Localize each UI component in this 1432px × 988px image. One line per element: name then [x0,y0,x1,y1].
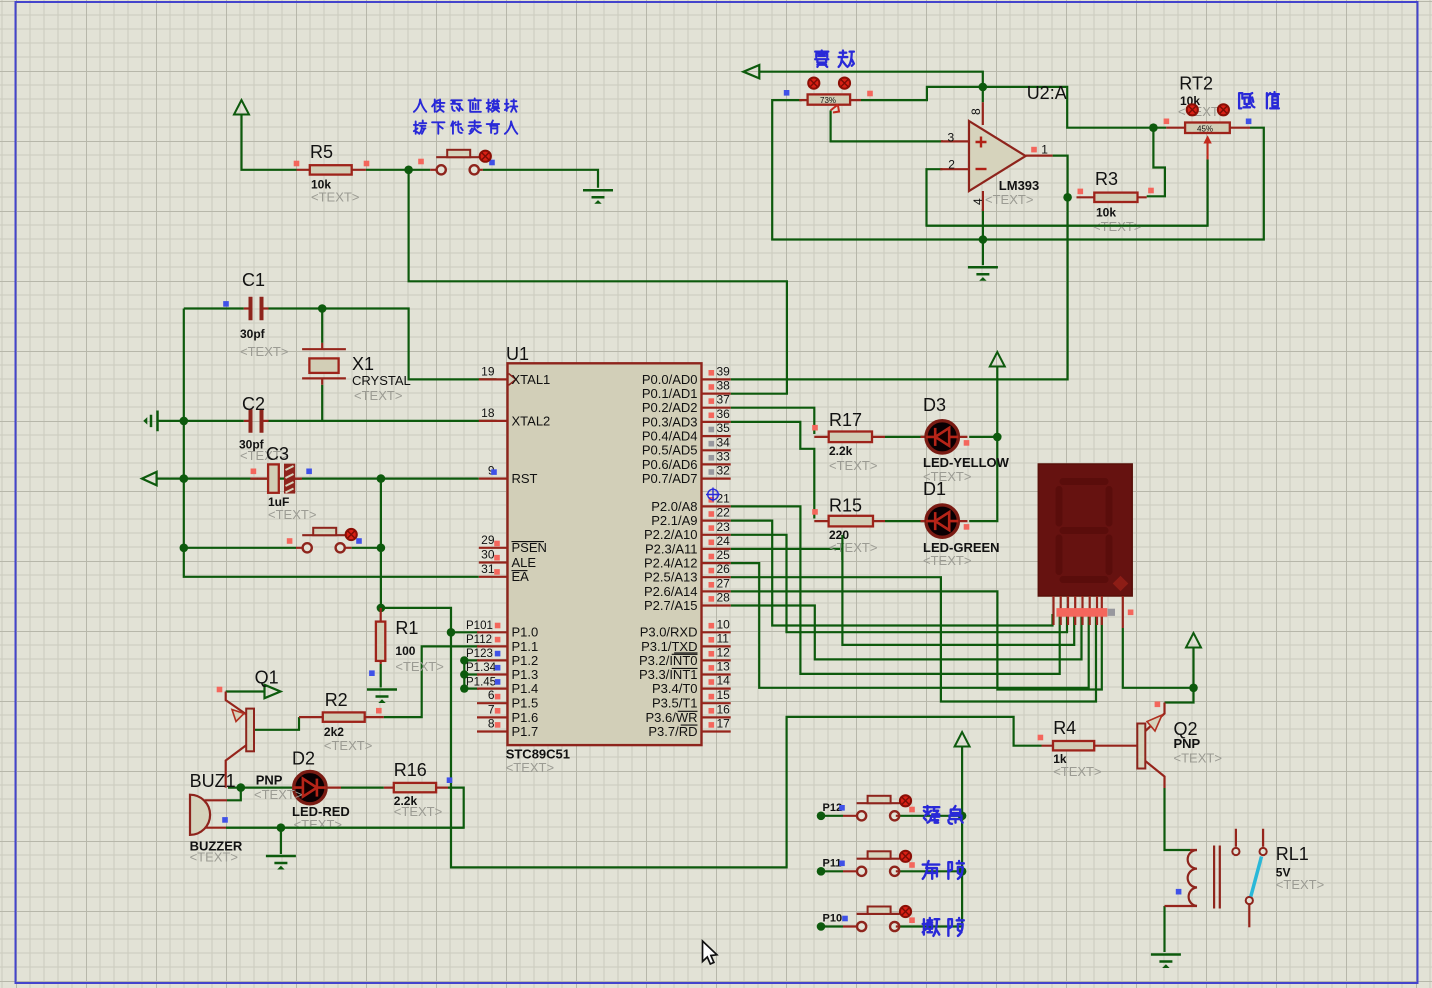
svg-text:R15: R15 [829,496,862,516]
svg-text:P3.2/INT0: P3.2/INT0 [639,653,698,668]
svg-text:<TEXT>: <TEXT> [985,192,1033,207]
svg-text:P0.6/AD6: P0.6/AD6 [642,457,698,472]
svg-text:P2.4/A12: P2.4/A12 [644,556,698,571]
svg-text:P1.5: P1.5 [512,696,539,711]
svg-text:P1.7: P1.7 [512,724,539,739]
svg-text:16: 16 [717,702,731,716]
svg-text:R1: R1 [395,618,418,638]
svg-text:<TEXT>: <TEXT> [354,388,402,403]
svg-text:P2.0/A8: P2.0/A8 [651,499,697,514]
svg-text:6: 6 [488,688,495,702]
svg-text:19: 19 [481,364,495,378]
svg-text:<TEXT>: <TEXT> [1276,877,1324,892]
svg-text:<TEXT>: <TEXT> [829,540,877,555]
svg-text:U1: U1 [506,344,529,364]
svg-text:XTAL2: XTAL2 [512,413,551,428]
svg-text:P0.4/AD4: P0.4/AD4 [642,429,698,444]
svg-text:100: 100 [395,644,415,658]
svg-text:P2.3/A11: P2.3/A11 [645,541,698,556]
svg-text:18: 18 [481,406,495,420]
svg-text:RL1: RL1 [1276,844,1309,864]
svg-text:P0.5/AD5: P0.5/AD5 [642,443,698,458]
svg-text:1: 1 [1041,143,1048,157]
svg-text:38: 38 [717,379,731,393]
svg-text:R4: R4 [1053,718,1076,738]
svg-text:P112: P112 [466,634,492,646]
svg-text:LM393: LM393 [999,178,1039,193]
svg-text:P3.3/INT1: P3.3/INT1 [639,667,698,682]
svg-text:<TEXT>: <TEXT> [1053,764,1101,779]
svg-text:<TEXT>: <TEXT> [324,738,372,753]
svg-text:D3: D3 [923,395,946,415]
svg-text:4: 4 [971,198,985,205]
svg-text:32: 32 [717,464,731,478]
svg-text:P1.6: P1.6 [512,710,539,725]
svg-text:17: 17 [717,717,731,731]
svg-text:P10: P10 [823,913,843,925]
svg-text:D1: D1 [923,479,946,499]
svg-text:8: 8 [488,717,495,731]
svg-text:73%: 73% [820,96,836,105]
svg-text:11: 11 [717,631,730,645]
svg-text:2k2: 2k2 [324,725,344,739]
svg-text:7: 7 [488,702,495,716]
svg-text:<TEXT>: <TEXT> [394,804,442,819]
svg-text:<TEXT>: <TEXT> [1174,750,1222,765]
svg-text:PSEN: PSEN [512,540,547,555]
svg-text:P12: P12 [823,802,843,814]
svg-text:P3.6/WR: P3.6/WR [645,710,697,725]
svg-text:P2.1/A9: P2.1/A9 [651,513,697,528]
svg-text:<TEXT>: <TEXT> [829,458,877,473]
svg-text:R3: R3 [1095,169,1118,189]
svg-text:P101: P101 [466,620,493,632]
svg-text:15: 15 [717,688,731,702]
svg-text:P0.7/AD7: P0.7/AD7 [642,471,698,486]
svg-text:<TEXT>: <TEXT> [254,787,302,802]
svg-text:3: 3 [948,131,955,145]
svg-text:P2.7/A15: P2.7/A15 [644,598,698,613]
svg-text:RT2: RT2 [1179,74,1213,94]
svg-text:2: 2 [948,158,955,172]
svg-text:P0.3/AD3: P0.3/AD3 [642,414,698,429]
svg-text:D2: D2 [292,749,315,769]
svg-text:12: 12 [717,645,731,659]
svg-text:26: 26 [717,562,731,576]
svg-text:P1.3: P1.3 [512,667,539,682]
svg-text:P1.45: P1.45 [466,676,496,688]
svg-text:RST: RST [512,471,538,486]
svg-text:P2.2/A10: P2.2/A10 [644,527,698,542]
svg-text:P3.0/RXD: P3.0/RXD [640,625,698,640]
svg-text:39: 39 [717,364,731,378]
svg-text:C3: C3 [266,444,289,464]
svg-text:X1: X1 [352,354,374,374]
svg-text:P1.34: P1.34 [466,662,497,674]
svg-text:33: 33 [717,449,731,463]
svg-text:P0.1/AD1: P0.1/AD1 [642,386,698,401]
svg-text:<TEXT>: <TEXT> [190,850,238,865]
svg-text:PNP: PNP [256,773,283,788]
svg-text:Q1: Q1 [255,667,279,687]
svg-text:13: 13 [717,660,731,674]
svg-text:R16: R16 [394,760,427,780]
svg-text:BUZ1: BUZ1 [190,771,236,791]
svg-text:<TEXT>: <TEXT> [923,553,971,568]
svg-text:P1.4: P1.4 [512,681,539,696]
svg-text:23: 23 [717,520,731,534]
svg-text:ALE: ALE [512,555,537,570]
svg-text:35: 35 [717,421,731,435]
svg-text:EA: EA [512,569,530,584]
svg-text:R17: R17 [829,410,862,430]
svg-text:22: 22 [717,506,731,520]
svg-text:P0.0/AD0: P0.0/AD0 [642,372,698,387]
svg-text:31: 31 [481,562,495,576]
svg-text:<TEXT>: <TEXT> [268,507,316,522]
svg-text:24: 24 [717,534,731,548]
svg-text:P11: P11 [823,858,842,870]
svg-text:29: 29 [481,533,495,547]
svg-text:<TEXT>: <TEXT> [395,659,443,674]
svg-text:P1.0: P1.0 [512,625,539,640]
svg-text:U2:A: U2:A [1027,83,1067,103]
svg-text:P3.5/T1: P3.5/T1 [652,696,698,711]
svg-text:P3.7/RD: P3.7/RD [648,724,697,739]
svg-text:8: 8 [969,108,983,115]
svg-text:30: 30 [481,548,495,562]
svg-text:P3.1/TXD: P3.1/TXD [641,639,697,654]
svg-text:P2.5/A13: P2.5/A13 [644,570,698,585]
svg-text:25: 25 [717,548,731,562]
svg-text:30pf: 30pf [240,327,266,341]
svg-text:<TEXT>: <TEXT> [240,344,288,359]
svg-text:C2: C2 [242,394,265,414]
svg-text:2.2k: 2.2k [829,444,853,458]
svg-text:P0.2/AD2: P0.2/AD2 [642,400,698,415]
svg-text:P1.2: P1.2 [512,653,539,668]
svg-text:27: 27 [717,576,731,590]
svg-text:P3.4/T0: P3.4/T0 [652,681,698,696]
svg-text:28: 28 [717,591,731,605]
svg-text:PNP: PNP [1174,736,1201,751]
svg-text:C1: C1 [242,270,265,290]
svg-text:<TEXT>: <TEXT> [311,190,359,205]
svg-text:R5: R5 [310,142,333,162]
svg-text:LED-YELLOW: LED-YELLOW [923,455,1010,470]
svg-text:P2.6/A14: P2.6/A14 [644,584,698,599]
svg-text:P1.1: P1.1 [512,639,539,654]
svg-text:14: 14 [717,674,731,688]
svg-text:10k: 10k [1096,206,1116,220]
svg-text:R2: R2 [325,690,348,710]
svg-text:P123: P123 [466,648,493,660]
svg-text:45%: 45% [1197,124,1213,133]
svg-text:<TEXT>: <TEXT> [294,817,342,832]
svg-text:34: 34 [717,435,731,449]
svg-text:XTAL1: XTAL1 [512,372,551,387]
svg-text:CRYSTAL: CRYSTAL [352,373,411,388]
svg-text:10: 10 [717,617,731,631]
svg-text:<TEXT>: <TEXT> [506,760,554,775]
svg-text:37: 37 [717,393,731,407]
svg-text:36: 36 [717,407,731,421]
